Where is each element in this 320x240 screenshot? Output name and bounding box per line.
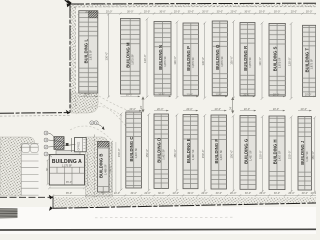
svg-text:130′-0″: 130′-0″	[143, 54, 147, 63]
svg-text:1,437 SF: 1,437 SF	[162, 149, 166, 160]
building BUILDING R outline	[240, 23, 255, 96]
dimension line 130′-0″	[261, 22, 264, 100]
dimension line 150′-0″	[290, 116, 293, 193]
svg-text:BUILDING B: BUILDING B	[99, 154, 104, 178]
svg-text:20′-0″: 20′-0″	[244, 108, 250, 111]
svg-text:20′-0″: 20′-0″	[305, 94, 311, 97]
parking stall area	[21, 143, 40, 195]
building BUILDING D outline	[154, 114, 169, 188]
hatched canopy west of building A	[54, 137, 64, 150]
svg-text:30′-0″: 30′-0″	[274, 10, 280, 13]
svg-text:OFFICE: OFFICE	[78, 141, 81, 150]
svg-text:1,437 SF: 1,437 SF	[277, 150, 281, 161]
west jog setback dashed line	[0, 115, 70, 118]
svg-text:150′-0″: 150′-0″	[229, 150, 233, 159]
svg-text:150′-0″: 150′-0″	[173, 149, 177, 158]
svg-text:30′-0″: 30′-0″	[245, 192, 251, 195]
svg-text:1,875 SF: 1,875 SF	[163, 56, 167, 67]
building A dimensions	[47, 153, 89, 189]
dimension line 130′-0″	[232, 20, 235, 99]
dimension line 150′-0″	[147, 113, 150, 192]
landscape area below building L	[71, 93, 98, 113]
svg-text:1,437 SF: 1,437 SF	[248, 150, 252, 161]
svg-text:1,875 SF: 1,875 SF	[278, 57, 282, 68]
north property line	[70, 2, 316, 5]
svg-text:1,437 SF: 1,437 SF	[305, 151, 309, 162]
svg-text:30′-0″: 30′-0″	[216, 192, 222, 195]
svg-text:30′-0″: 30′-0″	[302, 192, 308, 195]
svg-text:130′-0″: 130′-0″	[201, 57, 205, 66]
svg-text:20′-0″: 20′-0″	[114, 192, 120, 195]
dimension line 150′-0″	[232, 115, 235, 193]
svg-text:30′-0″: 30′-0″	[85, 10, 91, 13]
svg-text:20′-0″: 20′-0″	[273, 108, 279, 111]
keynote callouts above building B	[90, 121, 104, 128]
svg-text:20′-0″: 20′-0″	[144, 192, 150, 195]
svg-text:20′-0″: 20′-0″	[273, 94, 279, 97]
svg-text:130′-0″: 130′-0″	[173, 56, 177, 65]
svg-text:BUILDING C: BUILDING C	[129, 137, 134, 162]
svg-text:20′-0″: 20′-0″	[130, 108, 136, 111]
landscape strip around building B	[85, 137, 112, 197]
south property line	[53, 203, 316, 208]
svg-text:BUILDING H: BUILDING H	[272, 139, 277, 164]
west jog property line	[0, 112, 70, 115]
faint lane dashes	[95, 216, 235, 219]
svg-text:30′-0″: 30′-0″	[131, 192, 137, 195]
svg-text:150′-0″: 150′-0″	[259, 150, 263, 159]
svg-text:30′-0″: 30′-0″	[306, 10, 312, 13]
svg-text:BUILDING R: BUILDING R	[243, 46, 248, 71]
svg-text:20′-0″: 20′-0″	[173, 192, 179, 195]
svg-text:20′-0″: 20′-0″	[301, 108, 307, 111]
west property line	[69, 4, 71, 113]
dimension line 130′-0″	[290, 22, 293, 100]
svg-text:1,875 SF: 1,875 SF	[248, 57, 252, 68]
building BUILDING P outline	[183, 23, 199, 95]
property jog at entry	[52, 196, 54, 209]
svg-text:20′-0″: 20′-0″	[215, 108, 221, 111]
building BUILDING S outline	[269, 23, 285, 96]
svg-text:1,437 SF: 1,437 SF	[191, 149, 195, 160]
svg-text:BUILDING Q: BUILDING Q	[215, 44, 220, 70]
svg-text:20′-0″: 20′-0″	[230, 192, 236, 195]
svg-text:1,875 SF: 1,875 SF	[89, 49, 93, 60]
easement dashed line west of building B	[93, 135, 95, 198]
road edge line	[0, 228, 316, 231]
building BUILDING G outline	[240, 116, 256, 190]
building B	[98, 142, 110, 193]
office wing of building A	[75, 137, 87, 151]
svg-text:30′-0″: 30′-0″	[217, 10, 223, 13]
dimension line 150′-0″	[175, 114, 178, 192]
svg-text:150′-0″: 150′-0″	[311, 151, 315, 160]
building BUILDING C outline	[126, 112, 142, 188]
svg-text:130′-0″: 130′-0″	[230, 56, 234, 65]
svg-text:BUILDING T: BUILDING T	[305, 48, 310, 73]
southwest property line	[0, 196, 53, 198]
drive aisle turning-path dashed arcs	[70, 96, 132, 142]
svg-text:1,875 SF: 1,875 SF	[131, 54, 135, 65]
svg-text:1,875 SF: 1,875 SF	[220, 56, 224, 67]
svg-text:1,437 SF: 1,437 SF	[219, 150, 223, 161]
landscape stipple strip along west boundary	[71, 4, 76, 113]
svg-text:20′-0″: 20′-0″	[187, 94, 193, 97]
landscape stipple strip along north boundary	[70, 4, 316, 7]
building B side dimension	[111, 142, 113, 193]
keynote callouts west of building A	[44, 131, 75, 157]
building BUILDING F outline	[211, 115, 227, 189]
curb islands at parking head	[22, 144, 30, 153]
svg-text:BUILDING J: BUILDING J	[300, 140, 305, 165]
north setback dashed line	[74, 5, 316, 8]
svg-text:30′: 30′	[46, 167, 49, 171]
svg-text:90′-0″: 90′-0″	[109, 166, 112, 172]
svg-text:20′-0″: 20′-0″	[216, 94, 222, 97]
svg-text:130′-0″: 130′-0″	[258, 57, 262, 66]
landscape strip along south frontage	[47, 197, 316, 208]
svg-text:20′-0″: 20′-0″	[126, 94, 132, 97]
svg-text:20′-0″: 20′-0″	[186, 108, 192, 111]
building BUILDING Q outline	[212, 21, 227, 96]
building A	[49, 151, 84, 186]
parking stall stripes	[21, 143, 38, 195]
svg-text:1,488 SF: 1,488 SF	[104, 164, 108, 175]
dimension line 150′-0″	[120, 113, 123, 192]
svg-text:35′-0″: 35′-0″	[66, 181, 72, 184]
svg-text:30′-0″: 30′-0″	[127, 10, 133, 13]
svg-text:BUILDING F: BUILDING F	[214, 139, 219, 164]
svg-text:BUILDING N: BUILDING N	[158, 45, 163, 70]
svg-text:BUILDING L: BUILDING L	[84, 39, 89, 64]
svg-text:20′-0″: 20′-0″	[158, 94, 164, 97]
svg-text:20′-0″: 20′-0″	[84, 94, 90, 97]
building BUILDING J outline	[298, 117, 312, 191]
building BUILDING M outline	[120, 19, 140, 95]
svg-text:150′-0″: 150′-0″	[201, 150, 205, 159]
svg-text:20′-0″: 20′-0″	[106, 10, 112, 13]
svg-text:24′: 24′	[230, 106, 233, 110]
svg-text:20′-0″: 20′-0″	[288, 192, 294, 195]
svg-text:BUILDING P: BUILDING P	[186, 46, 191, 71]
svg-text:20′-0″: 20′-0″	[201, 192, 207, 195]
dimension line 130′-0″	[176, 21, 179, 99]
building BUILDING T outline	[303, 25, 316, 96]
svg-text:130′-0″: 130′-0″	[287, 57, 291, 66]
svg-text:30′: 30′	[101, 192, 105, 195]
building BUILDING N outline	[154, 22, 171, 96]
road area at bottom	[0, 207, 316, 234]
landscape area bottom-left	[0, 137, 35, 196]
building BUILDING E outline	[183, 115, 198, 189]
svg-text:20′-0″: 20′-0″	[202, 10, 208, 13]
svg-text:20′-0″: 20′-0″	[311, 192, 316, 195]
dimension line 150′-0″	[313, 116, 316, 193]
svg-text:1,175 SF: 1,175 SF	[62, 165, 73, 168]
svg-text:20′-0″: 20′-0″	[174, 10, 180, 13]
building BUILDING H outline	[269, 116, 285, 190]
svg-text:150′-0″: 150′-0″	[145, 149, 149, 158]
svg-text:20′-0″: 20′-0″	[259, 10, 265, 13]
building width dims below north row	[79, 94, 316, 98]
west setback dashed line	[74, 7, 76, 108]
svg-text:35′-0″: 35′-0″	[66, 192, 72, 195]
svg-text:30′-0″: 30′-0″	[188, 10, 194, 13]
svg-text:20′-0″: 20′-0″	[157, 108, 163, 111]
svg-text:24′: 24′	[140, 105, 143, 109]
existing pavement patch bottom-left	[0, 209, 18, 219]
svg-text:150′-0″: 150′-0″	[117, 148, 121, 157]
svg-text:20′-0″: 20′-0″	[231, 10, 237, 13]
svg-text:BUILDING S: BUILDING S	[273, 46, 278, 71]
svg-text:BUILDING E: BUILDING E	[186, 138, 191, 163]
svg-text:20′-0″: 20′-0″	[243, 94, 249, 97]
svg-text:1,875 SF: 1,875 SF	[310, 58, 314, 69]
dimension line 150′-0″	[203, 114, 206, 192]
svg-text:BUILDING M: BUILDING M	[126, 42, 131, 68]
svg-text:1,875 SF: 1,875 SF	[191, 57, 195, 68]
corner flag markers	[49, 0, 72, 211]
building width dims above south row	[126, 108, 312, 112]
svg-text:30′-0″: 30′-0″	[158, 192, 164, 195]
small utility box	[66, 143, 69, 146]
svg-text:30′-0″: 30′-0″	[187, 192, 193, 195]
drive aisle width dims	[142, 97, 234, 113]
dimension line 130′-0″	[107, 13, 110, 99]
dimension line 130′-0″	[146, 18, 149, 99]
south dimension string	[52, 192, 317, 197]
svg-text:1,437 SF: 1,437 SF	[134, 148, 138, 159]
svg-text:130′-0″: 130′-0″	[105, 52, 109, 61]
wall stub	[70, 138, 72, 152]
svg-text:30′-0″: 30′-0″	[244, 10, 250, 13]
svg-text:20′-0″: 20′-0″	[144, 10, 150, 13]
dimension line 150′-0″	[261, 115, 264, 193]
svg-text:BUILDING D: BUILDING D	[157, 138, 162, 163]
dimension line 130′-0″	[203, 22, 206, 100]
svg-text:150′-0″: 150′-0″	[287, 151, 291, 160]
svg-text:20′-0″: 20′-0″	[259, 192, 265, 195]
svg-text:30′-0″: 30′-0″	[159, 10, 165, 13]
north dimension string	[78, 10, 317, 14]
svg-text:20′-0″: 20′-0″	[291, 10, 297, 13]
svg-text:30′-0″: 30′-0″	[274, 192, 280, 195]
building BUILDING L outline	[79, 11, 98, 93]
svg-text:BUILDING G: BUILDING G	[243, 139, 248, 164]
